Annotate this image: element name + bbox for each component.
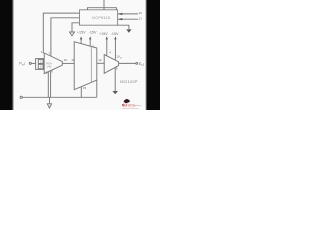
svg-text:-15V: -15V (111, 32, 119, 36)
up arrowhead supply2b (114, 36, 116, 39)
op-amp A2 ground stub pin 8 (114, 67, 116, 91)
svg-text:DCP0115: DCP0115 (92, 16, 110, 20)
supply stub -15V right (114, 39, 116, 60)
svg-text:Eo1: Eo1 (139, 62, 145, 67)
supply stub -15V left (89, 39, 91, 46)
op-amp A1 power stub 5 (47, 72, 49, 97)
svg-text:elecfans: elecfans (134, 105, 141, 107)
U2 corner stub to rail (96, 80, 98, 97)
svg-text:+15V: +15V (99, 32, 108, 36)
supply stub +15V right (106, 39, 108, 56)
watermark logo wing (125, 99, 127, 100)
svg-text:16: 16 (139, 11, 143, 15)
op-amp A1 power stub 6 (50, 71, 52, 97)
coupling cell square 2 (38, 59, 43, 63)
isolation amplifier U2 trapezoid (74, 42, 97, 90)
wire input to isolation module (32, 62, 36, 64)
output terminal circle (136, 63, 138, 65)
wire box right pin2 (118, 18, 138, 20)
wire A1 output to isolation amp (62, 62, 74, 64)
up arrowhead supply2a (106, 36, 108, 39)
up arrowhead supply1b (89, 36, 91, 39)
U2 ground stub pin 15 (80, 87, 82, 98)
op-amp A2 body (104, 55, 118, 74)
wire W1 box pin1 to op-amp A1 top corner (43, 13, 79, 53)
supply stub +15V left (80, 39, 82, 44)
W3 hollow down arrow (70, 32, 75, 36)
op-amp A1 body (44, 53, 62, 74)
background (0, 0, 160, 110)
ground rail (22, 96, 97, 98)
wire W2 box pin2 to op-amp A1 top edge (51, 18, 80, 56)
svg-text:Pin1: Pin1 (19, 62, 26, 67)
isolation barrier line (90, 47, 92, 83)
svg-text:11: 11 (71, 58, 74, 62)
svg-text:15: 15 (83, 86, 87, 90)
wire stub box top center (103, 0, 105, 10)
svg-text:ISO122P: ISO122P (120, 79, 138, 84)
wire A2 output (119, 62, 136, 64)
left black bar (0, 0, 12, 110)
wire top loop over box (88, 8, 117, 10)
right black bar (145, 0, 147, 110)
arrowhead into box right pin1 (118, 13, 123, 15)
wire U2 output to op-amp A2 (97, 62, 104, 64)
filled ground arrow at box (126, 29, 131, 32)
up arrowhead supply1a (80, 36, 82, 39)
svg-text:10: 10 (64, 58, 68, 62)
svg-text:140: 140 (46, 65, 51, 69)
filled ground arrow below A2 (112, 91, 118, 94)
svg-text:+15V: +15V (77, 31, 86, 35)
ground terminal circle (20, 96, 22, 98)
wire ground stub at box bottom right (118, 25, 129, 29)
ground hollow arrow (47, 104, 51, 108)
input terminal circle (29, 62, 31, 64)
svg-text:电子: 电子 (122, 102, 128, 107)
wire box right pin1 (118, 13, 138, 15)
arrowhead into box right pin2 (118, 18, 123, 20)
svg-text:-15V: -15V (89, 31, 97, 35)
svg-text:1J: 1J (139, 17, 143, 21)
input coupling box (36, 59, 44, 70)
ground stem below A1 stubs (48, 97, 50, 104)
DC/DC converter box U3 (80, 10, 118, 25)
coupling cell square 3 (38, 64, 43, 69)
wire W3 box pin3 to down arrow (72, 23, 80, 32)
watermark logo bird (124, 99, 130, 103)
svg-text:12: 12 (98, 58, 102, 62)
svg-text:www.elecfans.com: www.elecfans.com (123, 108, 139, 110)
